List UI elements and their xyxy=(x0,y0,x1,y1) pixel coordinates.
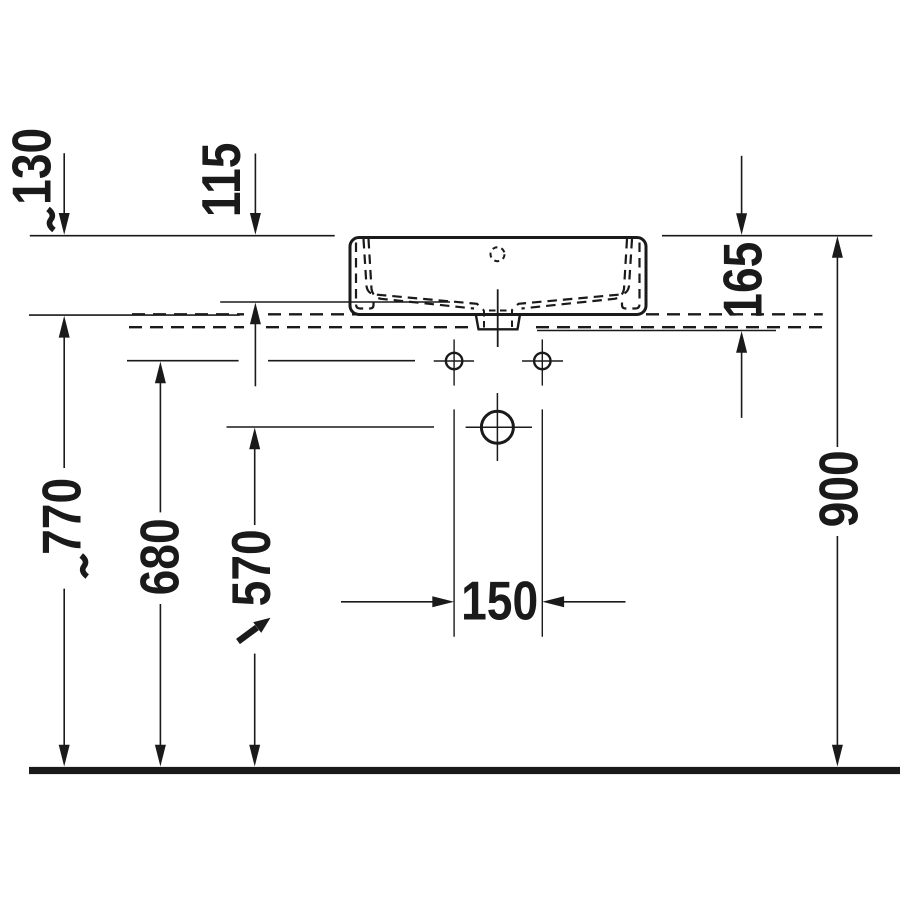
drain dashed inner rectangle xyxy=(484,311,512,328)
drain cup solid outline xyxy=(476,316,520,330)
basin inner wall dashed contour left A xyxy=(356,243,374,309)
dimension 115 lower tail with up arrow xyxy=(254,320,256,386)
svg-text:150: 150 xyxy=(461,570,538,632)
dimension 150 left tail and arrow xyxy=(341,601,436,603)
washbasin outline xyxy=(350,238,646,315)
dimension 570 upper segment with up arrow xyxy=(254,445,256,525)
node floor line xyxy=(29,767,900,774)
basin inner wall dashed contour right A xyxy=(622,243,640,309)
mounting hole circle right xyxy=(534,353,550,369)
dimension 150 right tail and arrow xyxy=(561,601,626,603)
mounting hole left crosshair xyxy=(434,360,474,362)
tilde for ~130 xyxy=(48,209,54,230)
drain centerline xyxy=(497,289,499,347)
tap hole circle (large) xyxy=(481,411,513,443)
svg-text:165: 165 xyxy=(712,242,774,319)
dimension ~770 upper segment with up arrow xyxy=(63,333,65,468)
dimension 165 bottom arrow (pointing up) xyxy=(741,348,743,418)
dimension 900 lower segment with down arrow xyxy=(836,536,838,749)
wire 165 bottom reference line xyxy=(537,330,776,332)
wire 680 reference line xyxy=(127,360,239,362)
svg-text:115: 115 xyxy=(190,143,252,218)
dimension 150 extension line right xyxy=(541,409,543,636)
svg-text:570: 570 xyxy=(220,529,282,606)
svg-text:680: 680 xyxy=(129,518,191,595)
basin inner wall dashed contour right C xyxy=(522,239,628,309)
dimension ~130 line and arrow xyxy=(63,153,65,216)
tilde for ~770 xyxy=(81,556,87,577)
wire dashed console line lower xyxy=(129,326,823,328)
basin inner wall dashed contour right B xyxy=(512,239,632,310)
dimension 680 upper segment with up arrow xyxy=(159,379,161,512)
dimension 165 top arrow (pointing down to rim line) xyxy=(741,156,743,217)
basin inner wall dashed contour left B xyxy=(364,239,484,310)
wire dashed console line upper xyxy=(132,313,823,315)
dimension 150 extension line left xyxy=(453,409,455,636)
svg-text:770: 770 xyxy=(31,478,93,555)
adjustability arrow (NE) below 570 xyxy=(238,618,271,642)
dimension 900 upper segment with up arrow xyxy=(836,254,838,448)
wire 115 reference line xyxy=(220,301,450,303)
svg-text:130: 130 xyxy=(1,128,63,205)
mounting hole circle left xyxy=(446,353,462,369)
tap hole crosshair xyxy=(466,426,532,428)
wire top reference line right segment (rim level) xyxy=(662,235,872,237)
dimension 680 lower segment with down arrow xyxy=(159,604,161,749)
dimension 115 line and arrow xyxy=(254,154,256,217)
dimension 570 lower segment with down arrow xyxy=(254,654,256,749)
wire 570 reference line xyxy=(227,426,435,428)
wire ~770 reference line xyxy=(29,314,240,316)
dimension ~770 lower segment with down arrow xyxy=(63,589,65,749)
basin inner wall dashed contour left C xyxy=(369,239,475,309)
wire top reference line left segment (rim level) xyxy=(30,235,335,237)
faucet hole dashed circle xyxy=(491,247,505,261)
svg-text:900: 900 xyxy=(808,450,870,527)
mounting hole right crosshair xyxy=(522,360,563,362)
